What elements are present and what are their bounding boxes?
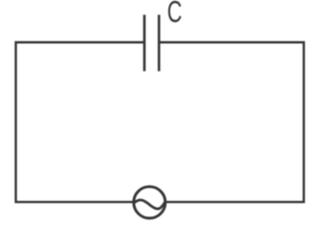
svg-text:C: C (167, 0, 182, 29)
